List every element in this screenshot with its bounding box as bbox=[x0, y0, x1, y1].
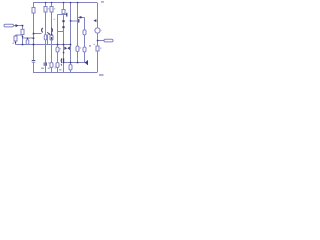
resistor R16 on x45 mid bbox=[44, 35, 46, 40]
transistor Q7 arrow at x93-96 bbox=[93, 19, 96, 22]
label tick Q4 bbox=[100, 30, 102, 31]
node x63 y44.5 bbox=[63, 44, 65, 46]
wire input horizontal bbox=[14, 25, 23, 27]
capacitor C2 plates x33 bbox=[32, 60, 36, 61]
resistor R12 load right bbox=[104, 39, 113, 42]
resistor R8 on x77 mid bbox=[76, 46, 79, 52]
label smudge bottom mid bbox=[59, 69, 62, 71]
wire vertical x45 bbox=[45, 3, 47, 73]
resistor R6 on x51 mid bbox=[50, 35, 53, 40]
resistor R1 input horizontal bbox=[4, 24, 14, 27]
node x77 y62.5 bbox=[77, 62, 79, 64]
label smudge bottom right bbox=[99, 74, 104, 76]
label plus C3 bbox=[48, 62, 50, 63]
transistor Q8 arc bottom x62 bbox=[60, 59, 63, 64]
resistor R4 on x51 bbox=[50, 7, 53, 13]
label smudge mid left plus bbox=[13, 43, 15, 45]
label tick R7 bbox=[60, 48, 62, 49]
label tick R8 bbox=[80, 47, 82, 48]
label tick R3 bbox=[48, 8, 50, 9]
input arrow bbox=[16, 24, 19, 27]
resistor R11 on x57 bottom bbox=[56, 63, 59, 68]
diode arrow mid right-pointing bbox=[64, 46, 67, 50]
node input corner bbox=[22, 25, 24, 27]
wire stub y38.2 bbox=[23, 37, 34, 39]
diode D1 on x63 bbox=[62, 20, 64, 22]
arrow on x22 cap bbox=[22, 36, 24, 38]
wire input drop x22 bbox=[22, 26, 24, 45]
resistor R5 on x63 bbox=[62, 10, 65, 14]
diff pair emitter diagonal bbox=[47, 32, 49, 34]
transistor Q8 emitter tick bbox=[61, 64, 62, 65]
wire right vertical x97 bbox=[97, 3, 99, 73]
diode D2 on x63 bbox=[62, 26, 64, 28]
node x27.5 y38.2 bbox=[27, 38, 28, 39]
wire stub x27.5 top bbox=[27, 38, 28, 40]
transistor Q6 oval on x84 low bbox=[83, 47, 86, 52]
resistor R15 on x15.5 bbox=[14, 36, 17, 41]
arrow on x15.5 cap bbox=[15, 42, 17, 44]
transistor Q9 arrow left-pointing at output bbox=[84, 61, 87, 64]
node x33 y44.5 bbox=[33, 44, 35, 46]
node tail bbox=[49, 33, 50, 34]
resistor R9 on x70 bottom bbox=[69, 65, 72, 71]
node x70 y20.8 bbox=[70, 20, 72, 22]
resistor R7 on x57 mid bbox=[56, 47, 59, 52]
wire vertical x77 bbox=[77, 3, 79, 63]
label tick x51 bbox=[54, 19, 55, 20]
node x22 y44.5 bbox=[22, 44, 24, 46]
node x33 y38.2 bbox=[33, 37, 35, 39]
wire vertical x63 bbox=[63, 3, 65, 73]
transistor Q9 bar bbox=[87, 60, 88, 65]
wire top supply rail bbox=[33, 2, 97, 4]
resistor R14 on x22 bbox=[21, 29, 24, 34]
transistor Q1 mark bbox=[66, 13, 67, 17]
wire stub y20.8 bbox=[71, 20, 79, 22]
transistor Q3a arc left bbox=[42, 28, 43, 33]
label tick bottom mid bbox=[55, 66, 56, 68]
transistor Q4 circle on x97 bbox=[95, 28, 100, 33]
node x70 y44.5 bbox=[70, 44, 72, 46]
resistor R3 on x45 bbox=[44, 7, 47, 13]
node x57 y44.5 bbox=[57, 44, 59, 46]
resistor R2 on x33 bbox=[32, 8, 35, 14]
resistor R17 on x27.5 bbox=[26, 40, 29, 45]
capacitor C3 plates x45 bottom bbox=[43, 62, 46, 65]
wire base y33.6 bbox=[34, 33, 42, 35]
transistor Q5 oval on x84 bbox=[83, 30, 86, 35]
wire bottom ground rail bbox=[33, 72, 97, 74]
resistor R10 on x51 bottom bbox=[50, 63, 53, 68]
transistor Q3b arc right bbox=[51, 28, 52, 33]
node x70 y62.5 bbox=[70, 62, 72, 64]
wire mid bus y44.5 bbox=[16, 44, 71, 46]
transistor Q2 corner tick bbox=[80, 16, 82, 18]
wire diff tail x47.5 bbox=[47, 35, 49, 45]
wire stub y34.8 bbox=[16, 34, 23, 36]
label tick R13 plus bbox=[93, 44, 95, 45]
wire stub y14.5 bbox=[58, 14, 67, 16]
label smudge bottom left1 bbox=[41, 68, 44, 70]
resistor R13 on x97 bbox=[96, 46, 99, 51]
label smudge bottom left2 bbox=[48, 68, 50, 70]
wire vertical x57 bbox=[57, 15, 59, 73]
wire vertical x51 bbox=[51, 3, 53, 73]
wire stub y31.5 bbox=[58, 31, 64, 33]
node x33 y33.6 bbox=[33, 33, 35, 35]
wire left vertical x33 bbox=[33, 3, 35, 73]
wire vertical x70 bbox=[70, 3, 72, 73]
wire corner x77-x84 y17.5 bbox=[78, 17, 85, 19]
label smudge right transistor plus bbox=[89, 45, 91, 47]
node x63 y52.5 bbox=[63, 52, 65, 54]
wire branch x15.5 bbox=[15, 35, 17, 45]
label tick R4 bbox=[54, 8, 56, 9]
diode arrow mid left-pointing bbox=[67, 46, 70, 50]
transistor Q2 mark bbox=[78, 19, 79, 23]
label smudge top right bbox=[101, 1, 104, 3]
label tick R13 right bbox=[100, 48, 102, 49]
transistor Q8 bar bbox=[63, 58, 64, 63]
node x97 y40.5 bbox=[97, 40, 98, 41]
wire right branch y40.5 bbox=[98, 40, 105, 42]
wire output y62.5 bbox=[64, 62, 85, 64]
diode bars on x51 bbox=[51, 33, 52, 35]
wire vertical x84 bbox=[84, 18, 86, 63]
junction dots top rail bbox=[45, 2, 46, 3]
